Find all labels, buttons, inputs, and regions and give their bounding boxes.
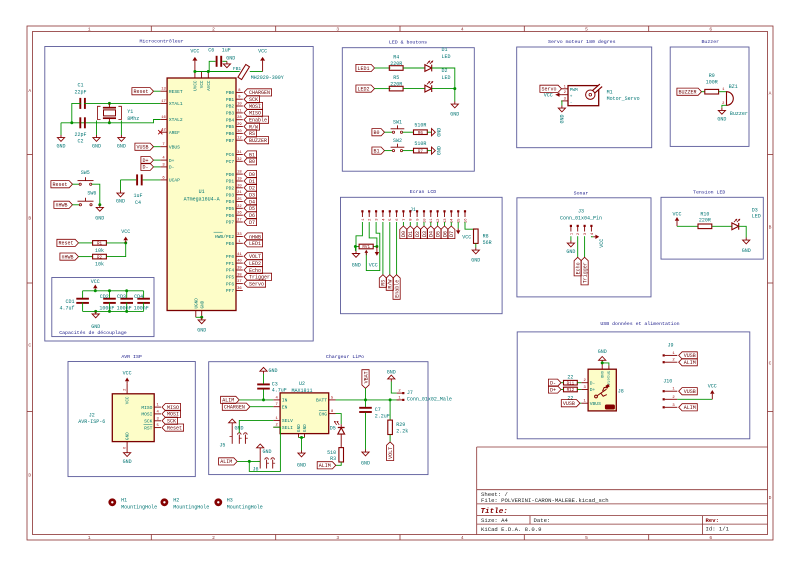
power flag VCC at U1 top left [194,61,196,72]
svg-text:22: 22 [237,205,242,209]
svg-text:C4: C4 [135,200,141,206]
global label R/W at U1 [244,123,260,130]
svg-text:AVR-ISP-6: AVR-ISP-6 [78,419,105,425]
svg-text:KiCad E.D.A. 8.0.9: KiCad E.D.A. 8.0.9 [481,526,541,533]
svg-text:GND: GND [303,424,308,432]
global label Enable vertical [393,275,400,300]
wire Reset label to pin [154,90,161,92]
svg-text:SCK: SCK [144,419,153,425]
junction AVCC [207,70,210,73]
global label D- at J8 [548,379,561,386]
junction VBAT C7 [364,398,367,401]
svg-text:Conn_01x04_Pin: Conn_01x04_Pin [560,215,602,221]
svg-text:6: 6 [709,535,712,541]
ground at buzzer [721,108,723,111]
svg-text:GND: GND [117,144,126,150]
wire J3 pin3 to Trigger [584,236,586,257]
J10 pin 2 [663,398,665,400]
svg-text:33: 33 [237,233,242,237]
U1 pin 33 HWB/PE2 [236,236,243,238]
wire VBAT to rail [365,388,367,400]
wire J5 pin2 to SELV [239,420,273,433]
connector J7 pin1 [397,399,403,401]
svg-text:VBUS: VBUS [590,401,601,407]
wire XTAL2 rail [61,120,160,123]
svg-text:R10: R10 [700,211,709,217]
global label D1 at U1 [244,177,257,184]
U2 pin 1 SELV [273,419,280,421]
J1 pin 2 [368,210,370,212]
svg-text:J5: J5 [219,443,225,449]
global label D3 at J1 [423,222,425,226]
resistor R5 [389,86,403,91]
svg-text:Reset: Reset [167,425,182,431]
junction decoupling vcc [94,289,97,292]
svg-text:1uF: 1uF [222,47,231,53]
svg-text:12: 12 [237,137,242,141]
svg-text:VOLT: VOLT [388,447,394,459]
capacitor C1 [79,98,81,109]
svg-text:GND: GND [268,368,277,374]
svg-text:D+: D+ [169,158,175,164]
svg-text:10: 10 [237,103,242,107]
U1 pin 20 PD2 [236,187,243,189]
svg-text:ALIM: ALIM [220,459,232,465]
LED D2 [425,85,432,92]
U1 pin 38 PF5 [236,276,243,278]
svg-text:Reset: Reset [52,182,67,188]
svg-text:PD5: PD5 [226,206,235,212]
global label D1 at J1 [409,222,411,226]
svg-text:R7: R7 [418,150,424,154]
svg-text:SW2: SW2 [393,138,402,144]
svg-text:H1: H1 [121,498,127,504]
J2 pin 4 MOSI [154,413,161,415]
svg-text:R3: R3 [330,456,336,462]
ground at sonar [570,241,572,244]
svg-text:VCC: VCC [462,234,471,240]
J1 pin 10 [423,210,425,212]
svg-text:A: A [769,91,772,97]
global label RS vertical [379,275,386,288]
junction RV1 left [354,245,357,248]
J2 pin 1 MISO [154,406,161,408]
junction SW6 right [98,203,101,206]
wire J1 pin2 to RV1 right [369,222,377,247]
U1 pin 21 PD3 [236,194,243,196]
wire R4 to D1 [403,67,425,69]
global label VUSB at VBUS pin [135,143,154,150]
ground above J6 [259,448,261,451]
ground above C3 [263,371,265,374]
svg-text:nHWB: nHWB [55,203,67,209]
global label LED1 at U1 [244,240,263,247]
global label D7 at U1 [244,218,257,225]
svg-text:2: 2 [212,27,215,33]
svg-text:510R: 510R [414,123,426,129]
svg-text:AREF: AREF [169,130,180,136]
global label ALIM at J10 [679,404,698,411]
svg-text:Capacités de découplage: Capacités de découplage [59,330,127,336]
power flag VCC at U1 top right [262,61,264,72]
svg-text:37: 37 [237,280,242,284]
crystal Y1 case brackets [98,106,101,119]
power flag VCC at pullups [125,240,127,243]
svg-text:Reset: Reset [58,241,73,247]
wire U2 gnd down [301,438,303,451]
svg-text:VCC: VCC [123,370,132,376]
global label CHARGEN at U2 EN [222,403,250,410]
svg-text:220R: 220R [390,61,402,67]
U1 pin 4 D+ [160,159,167,161]
wire AVCC to FB1 [208,71,239,73]
wire J1 pin16 to R8 [465,222,476,230]
svg-text:VBUS: VBUS [169,144,180,150]
resistor R2 [93,254,107,259]
svg-text:SELI: SELI [282,425,293,431]
junction RV1 right [375,245,378,248]
global label D6 at U1 [244,212,257,219]
wire ALIM to IN [239,399,273,401]
svg-text:ATmega16U4-A: ATmega16U4-A [184,196,220,202]
global label SCK at U1 [244,96,260,103]
capacitor C7 [365,400,367,408]
U1 pin 18 PD0 [236,173,243,175]
J9 pin 1 [663,354,665,356]
svg-text:VUSB: VUSB [684,389,696,395]
svg-text:D5: D5 [330,426,336,432]
power flag VCC at sonar [593,236,595,238]
global label B0 at U1 [244,158,257,165]
buzzer BZ1 [727,92,734,106]
U2 bottom GND pins [298,434,300,438]
wire UCAP to C4 [143,179,161,181]
svg-text:Trigger: Trigger [582,262,588,283]
svg-text:GND: GND [92,144,101,150]
switch SW6 [79,204,81,206]
svg-text:MountingHole: MountingHole [227,505,263,511]
svg-text:GND: GND [200,300,205,308]
J1 pin 7 [402,210,404,212]
crystal Y1 [108,103,110,107]
capacitor CD4 [143,291,145,299]
resistor R4 [389,66,403,71]
ground decoupling [95,311,97,314]
LED D3 [732,223,739,230]
svg-text:17: 17 [161,100,166,104]
global label ALIM at J9 [679,359,698,366]
svg-text:PD6: PD6 [226,213,235,219]
svg-text:PB5: PB5 [226,124,235,130]
global label D4 at U1 [244,198,257,205]
svg-text:D: D [769,495,772,501]
J1 pin 11 [430,210,432,212]
capacitor CD1 [82,291,84,299]
svg-text:J7: J7 [407,390,413,396]
svg-text:Title:: Title: [481,508,508,516]
svg-text:Enable: Enable [394,280,400,298]
svg-text:U1: U1 [199,189,205,195]
J1 pin 16 [464,210,466,212]
wire FB1 to VCC [250,71,263,73]
U2 pin 2 SELI [273,426,280,428]
global label B1 at SW2 [372,147,385,154]
J1 pin 5 [389,210,391,212]
J8 pin 2 D- [581,382,588,384]
global label D+ at U1 [141,157,154,164]
svg-text:RST: RST [144,425,153,431]
svg-text:5: 5 [585,535,588,541]
section box Sonar [517,198,651,297]
svg-text:PB2: PB2 [226,104,235,110]
junction crystal top [108,102,111,105]
svg-text:MAX1811: MAX1811 [291,388,312,394]
svg-text:PF0: PF0 [226,254,235,260]
svg-text:220R: 220R [699,218,711,224]
frame column ticks [150,26,152,32]
junction U1 gnd [200,316,203,319]
svg-text:BUZZER: BUZZER [678,90,696,96]
global label Servo at U1 [244,280,266,287]
svg-text:100nF: 100nF [117,306,132,312]
svg-text:SW6: SW6 [87,191,96,197]
ground at C6 [226,61,228,64]
svg-text:B1: B1 [373,148,379,154]
global label VUSB at J9 [679,352,698,359]
ground at RV1 [354,247,356,251]
global label ALIM at U2 IN [221,396,240,403]
global label LED1 [356,64,375,71]
LED D1 [425,65,432,72]
J1 pin 12 [437,210,439,212]
svg-text:5: 5 [585,27,588,33]
U1 pin 3 D- [160,166,167,168]
svg-text:USB données et alimentation: USB données et alimentation [600,321,679,327]
motor M1 pin 2 plus [561,94,568,96]
motor M1 servo arm [591,85,601,94]
wire LED1 to R4 [375,67,391,69]
resistor R7 [414,148,428,153]
svg-text:VCC: VCC [708,384,717,390]
svg-text:GND: GND [95,215,104,221]
wire C1 left down to C2 [72,103,81,122]
svg-text:GND: GND [123,459,132,465]
global label D- at U1 [141,163,154,170]
svg-text:R1: R1 [97,243,103,247]
svg-text:GND: GND [297,424,302,432]
svg-text:+: + [570,95,573,100]
U1 bottom power pins UGND GND [195,311,197,318]
wire J6 loop to SELI [249,427,280,471]
mounting hole H3 [214,498,222,506]
svg-text:GND: GND [717,116,726,122]
svg-text:C1: C1 [77,83,83,89]
U1 pin 10 PB2 [236,105,243,107]
wire SW1 to R6 [403,131,414,133]
ground below U1 [201,317,203,320]
svg-text:VBAT: VBAT [363,371,369,383]
svg-text:PD2: PD2 [226,186,235,192]
svg-text:VCC: VCC [126,396,131,404]
svg-text:C2: C2 [77,138,83,144]
svg-text:SW1: SW1 [393,119,402,125]
global label D2 at J1 [416,222,418,226]
junction R1R2 VCC [124,241,127,244]
junction D1 D2 [453,87,456,90]
svg-text:R2: R2 [97,256,103,260]
U1 pin 7 VBUS [160,146,167,148]
svg-text:1: 1 [88,27,91,33]
section box Tension LED [661,197,763,259]
J2 pin 3 SCK [154,420,161,422]
svg-text:7: 7 [403,219,407,221]
svg-text:J10: J10 [663,378,672,384]
U1 pin 8 PB0 [236,91,243,93]
svg-text:VCC: VCC [599,239,605,248]
svg-text:56R: 56R [483,240,492,246]
ground at J2 [126,450,128,453]
svg-text:GND: GND [560,114,566,123]
svg-text:VCC: VCC [544,93,553,99]
ground crystal case right [120,135,122,138]
svg-text:10k: 10k [95,262,104,268]
global label D4 at J1 [430,222,432,226]
wire buzzer pin2 to ground [722,105,727,108]
J3 pin 3 [584,225,586,227]
global label D5 at U1 [244,205,257,212]
svg-text:R6: R6 [418,132,424,136]
svg-text:R29: R29 [396,422,405,428]
svg-text:40: 40 [237,260,242,264]
svg-text:C7: C7 [375,407,381,413]
svg-text:Servo moteur 180 degres: Servo moteur 180 degres [548,39,616,45]
svg-text:J3: J3 [578,208,584,214]
svg-text:MISO: MISO [141,405,152,411]
svg-text:8Mhz: 8Mhz [127,116,139,122]
svg-text:22: 22 [567,374,573,380]
svg-text:29: 29 [237,123,242,127]
svg-text:D2: D2 [442,68,448,74]
svg-text:PD0: PD0 [226,172,235,178]
global label D2 at U1 [244,184,257,191]
svg-text:D7: D7 [249,220,255,226]
global label Reset at SW5 [51,181,73,188]
wire J1 pins 4-6 to labels [382,222,384,275]
U1 pin 39 PF4 [236,269,243,271]
LED D5 [336,414,342,425]
svg-text:GND: GND [742,248,751,254]
wire LED2 to R5 [375,88,391,90]
svg-text:PF4: PF4 [226,268,235,274]
wire J10 pin2 to VCC [677,398,712,400]
ground at switches [99,205,101,208]
wire VCC to R10 [677,225,698,227]
svg-text:22pF: 22pF [74,132,86,138]
J10 pin 1 [663,390,665,392]
capacitor CD2 [109,291,111,299]
svg-text:2: 2 [212,535,215,541]
svg-text:MountingHole: MountingHole [121,505,157,511]
svg-text:File: POLVERINI-CARON-MALEBE.k: File: POLVERINI-CARON-MALEBE.kicad_sch [481,497,609,504]
svg-text:HWB/PE2: HWB/PE2 [215,234,235,240]
global label Trigger at U1 [244,273,272,280]
section box Chargeur LiPo [209,362,428,475]
U2 pin 7 EN [273,406,280,408]
svg-text:GND: GND [566,249,575,255]
svg-text:7: 7 [162,143,164,147]
svg-text:MountingHole: MountingHole [173,505,209,511]
svg-text:CD4: CD4 [134,294,143,300]
wire C4 to ground [121,179,137,181]
global label MOSI at J2 [162,410,181,417]
junction crystal bottom [108,121,111,124]
svg-text:BZ1: BZ1 [729,84,738,90]
svg-text:UVCC: UVCC [194,80,199,91]
svg-text:B0: B0 [373,130,379,136]
svg-text:2.2uF: 2.2uF [375,413,390,419]
U1 pin 13 RESET [160,90,167,92]
U2 pin 8 CHG [329,413,336,415]
global label R/W vertical [386,275,393,291]
J2 pin 5 RST [154,427,161,429]
svg-text:LED: LED [442,54,451,60]
wire nHWB to R2 [79,256,93,258]
wire Reset to R1 [79,242,93,244]
wire J3 pin4 to VCC [591,235,593,238]
U1 pin 6 UCAP [160,179,167,181]
svg-text:R12: R12 [567,389,575,393]
U1 top power pins UVCC VCC AVCC [194,72,196,79]
svg-text:GND: GND [450,111,459,117]
mounting hole H1 [108,498,116,506]
wire J7 pin2 to ground [391,382,396,394]
svg-text:ALIM: ALIM [319,463,331,469]
svg-text:VCC: VCC [200,80,205,88]
svg-text:J2: J2 [89,412,95,418]
svg-text:VCC: VCC [91,279,100,285]
junction J8 shield [601,361,604,364]
wires D lines [561,382,564,384]
svg-text:GND: GND [598,349,607,355]
svg-text:18: 18 [237,171,242,175]
svg-text:PWM: PWM [570,88,578,93]
global label D7 at J1 [450,222,452,226]
global label RS at U1 [244,130,257,137]
global label Reset at R1 [57,239,79,246]
global label VUSB at J8 [561,400,580,407]
J9 pin 2 [663,361,665,363]
svg-text:26: 26 [237,212,242,216]
svg-text:19: 19 [237,178,242,182]
section box Microcontroleur [45,47,313,342]
ground at servo [561,106,563,109]
wire VCC rail to C6 [195,61,216,71]
U1 pin 31 PC6 [236,154,243,156]
svg-text:11: 11 [237,109,242,113]
wire R9 to buzzer [719,91,727,93]
J1 pin 3 [375,210,377,212]
svg-text:CHARGEN: CHARGEN [224,405,245,411]
U1 pin 41 PF0 [236,255,243,257]
section box Servo moteur 180 degres [517,47,652,148]
U1 pin 16 XTAL2 [160,119,167,121]
U1 pin 32 PC7 [236,160,243,162]
svg-text:PB1: PB1 [226,97,235,103]
wire B0 to SW1 [385,131,393,133]
U1 pin 17 XTAL1 [160,102,167,104]
svg-text:VUSB: VUSB [563,401,575,407]
svg-text:7: 7 [276,403,278,407]
